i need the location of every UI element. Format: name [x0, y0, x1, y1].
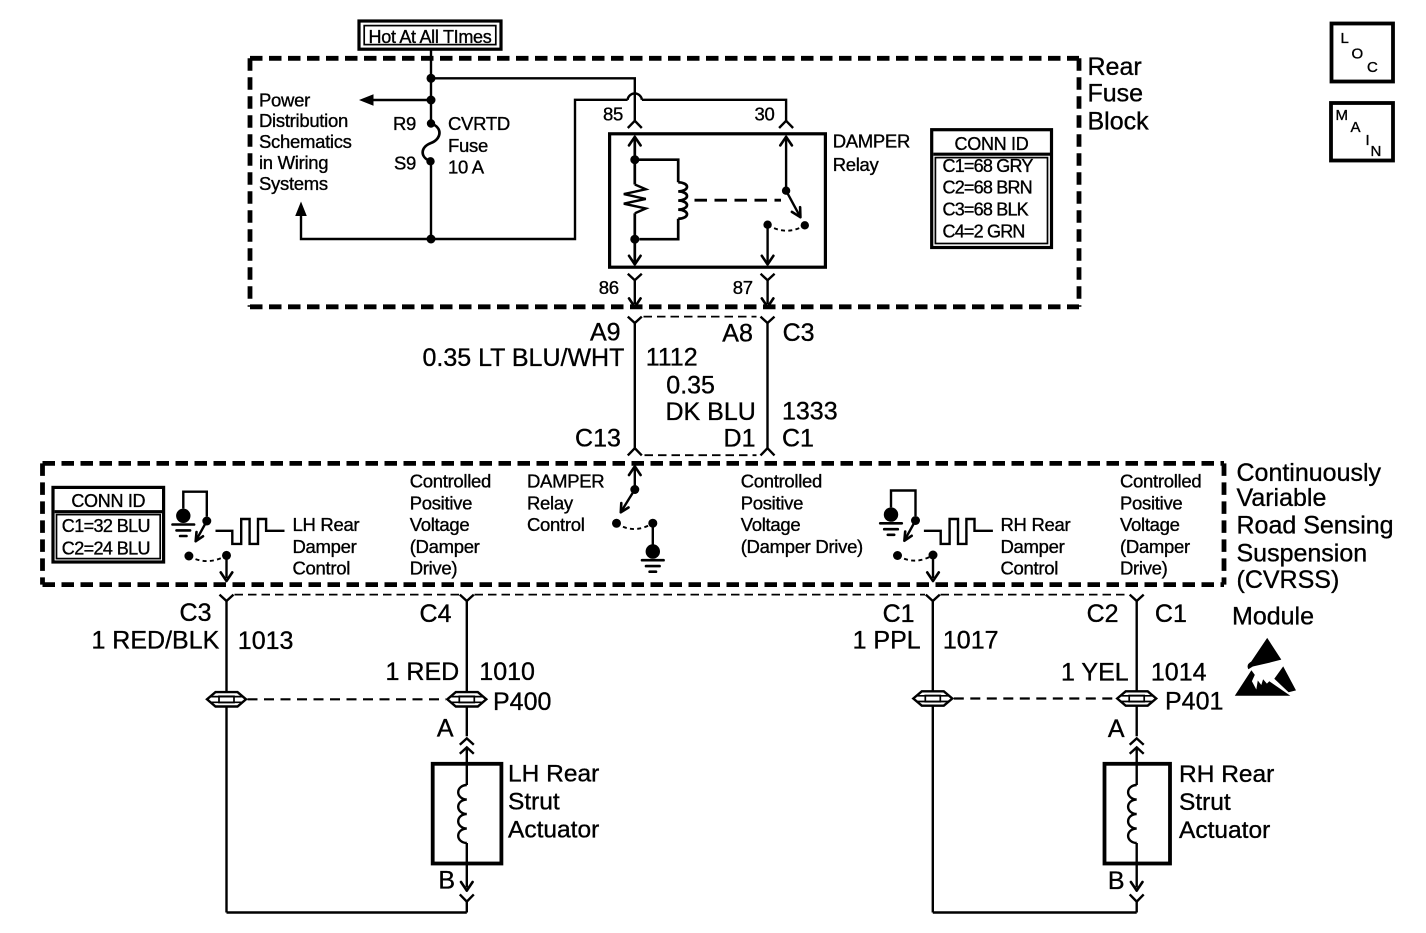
- svg-text:C3=68 BLK: C3=68 BLK: [943, 199, 1029, 219]
- svg-text:Positive: Positive: [410, 492, 472, 513]
- svg-text:C2=24 BLU: C2=24 BLU: [62, 538, 150, 558]
- node contact: [202, 517, 211, 526]
- svg-text:CONN ID: CONN ID: [71, 491, 145, 511]
- svg-text:Actuator: Actuator: [508, 817, 599, 844]
- ESD sensitive device symbol: [1248, 638, 1282, 669]
- svg-text:Relay: Relay: [833, 154, 880, 175]
- switch arm RH: [905, 521, 916, 540]
- wire to ground: [652, 523, 654, 544]
- svg-text:Strut: Strut: [1179, 789, 1231, 816]
- svg-text:Power: Power: [259, 89, 310, 110]
- wire ground to switch contact RH: [891, 491, 916, 517]
- svg-text:(CVRSS): (CVRSS): [1237, 566, 1340, 594]
- node pivot: [612, 519, 621, 528]
- svg-text:Controlled: Controlled: [741, 471, 822, 492]
- svg-text:N: N: [1371, 143, 1382, 160]
- wire fuse output down: [430, 161, 432, 239]
- svg-text:Voltage: Voltage: [410, 514, 470, 535]
- svg-text:86: 86: [599, 277, 619, 298]
- svg-text:P401: P401: [1165, 688, 1223, 716]
- svg-text:1010: 1010: [479, 658, 535, 686]
- svg-text:B: B: [438, 867, 455, 895]
- dashed tie between connectors RH: [954, 697, 1116, 699]
- svg-text:0.35: 0.35: [666, 372, 715, 400]
- wire 1017 (C1 down): [932, 601, 934, 692]
- arrow left solid: [359, 94, 374, 106]
- wire relay 87 to module (x=767.5): [761, 317, 775, 323]
- svg-text:Positive: Positive: [741, 492, 803, 513]
- node coil bottom junction: [630, 235, 639, 244]
- node ground contact: [648, 519, 657, 528]
- svg-text:R9: R9: [393, 113, 416, 134]
- svg-text:A: A: [1351, 119, 1361, 136]
- fuse CVRTD 10A (S-curve element): [427, 119, 435, 127]
- svg-text:C1=32 BLU: C1=32 BLU: [62, 516, 150, 536]
- svg-text:30: 30: [755, 104, 775, 125]
- svg-text:Strut: Strut: [508, 789, 560, 816]
- node output contact: [222, 551, 231, 560]
- svg-text:85: 85: [603, 104, 623, 125]
- svg-text:1 RED/BLK: 1 RED/BLK: [91, 627, 219, 655]
- svg-text:O: O: [1352, 46, 1364, 63]
- wire 1014 (C2 down): [1135, 601, 1137, 692]
- svg-text:Distribution: Distribution: [259, 110, 348, 131]
- svg-text:C1=68 GRY: C1=68 GRY: [943, 156, 1034, 176]
- svg-text:Schematics: Schematics: [259, 131, 352, 152]
- svg-text:Damper: Damper: [293, 536, 357, 557]
- svg-text:Module: Module: [1232, 602, 1314, 630]
- node pin 87 contact: [763, 221, 771, 229]
- actuator solenoid coil RH: [1135, 764, 1137, 785]
- dashed throw arc: [768, 225, 805, 231]
- wire ground to switch contact: [183, 492, 207, 517]
- wire battery feed from Hot At All Times: [430, 49, 432, 123]
- svg-text:Actuator: Actuator: [1179, 817, 1270, 844]
- ground (LH damper driver): [176, 509, 190, 523]
- svg-text:(Damper: (Damper: [410, 536, 480, 557]
- RH Rear Strut Actuator box: [1105, 764, 1171, 864]
- wire bottom return LH: [227, 911, 467, 913]
- Rear Fuse Block boundary (dashed): [250, 56, 1079, 61]
- svg-text:C2: C2: [1087, 600, 1119, 628]
- PWM waveform symbol LH: [216, 519, 285, 544]
- pin 87 connector: [761, 274, 775, 280]
- wire B out (RH): [1135, 864, 1137, 888]
- node switch pivot: [782, 187, 790, 195]
- resistor (relay internal): [633, 160, 636, 185]
- svg-text:C3: C3: [180, 599, 212, 627]
- PWM waveform symbol RH: [924, 519, 993, 544]
- svg-text:1333: 1333: [782, 398, 838, 426]
- svg-text:RH Rear: RH Rear: [1001, 514, 1071, 535]
- ground (RH damper driver): [884, 507, 898, 521]
- pin C2 connector: [1130, 595, 1144, 601]
- wire pin 87 down with arrow: [766, 225, 768, 264]
- relay control drive arrow: [629, 466, 641, 475]
- svg-text:Fuse: Fuse: [1088, 80, 1144, 108]
- svg-text:Continuously: Continuously: [1237, 459, 1382, 487]
- wire right branch to relay pin 30: [431, 100, 628, 239]
- switch arm (relay control): [621, 490, 635, 512]
- svg-text:(Damper: (Damper: [1120, 536, 1190, 557]
- svg-text:D1: D1: [724, 424, 756, 452]
- wire B out (LH): [466, 864, 468, 888]
- svg-text:C4: C4: [420, 600, 452, 628]
- svg-text:C1: C1: [782, 424, 814, 452]
- svg-text:M: M: [1336, 107, 1349, 124]
- svg-text:C13: C13: [575, 424, 621, 452]
- svg-text:Systems: Systems: [259, 173, 328, 194]
- connector pins A (RH): [1130, 738, 1144, 744]
- wire to pin C1 with arrow: [932, 555, 934, 578]
- relay switch arm: [786, 191, 800, 218]
- connector face dashed line: [235, 594, 460, 596]
- node junction at y=100: [427, 96, 436, 105]
- inline connector (RH left): [913, 691, 952, 705]
- svg-text:1 PPL: 1 PPL: [853, 627, 921, 655]
- pin 30 connector: [779, 121, 793, 128]
- svg-text:1017: 1017: [943, 627, 999, 655]
- svg-text:DAMPER: DAMPER: [527, 471, 604, 492]
- svg-text:in Wiring: in Wiring: [259, 152, 328, 173]
- svg-text:I: I: [1366, 132, 1370, 149]
- wire to left arrow (power distribution reference): [371, 99, 431, 101]
- node coil top junction: [630, 155, 639, 164]
- svg-text:Road Sensing: Road Sensing: [1237, 512, 1394, 540]
- LOC reference box: [1332, 24, 1394, 82]
- relay coil-side pin 85 entry arrow: [629, 137, 641, 146]
- svg-text:10 A: 10 A: [448, 157, 485, 178]
- svg-text:Relay: Relay: [527, 492, 574, 513]
- svg-text:CONN ID: CONN ID: [955, 134, 1029, 154]
- wire relay 86 to module (x=634.8): [628, 317, 642, 323]
- wire 1010 (C4 down): [466, 601, 468, 692]
- svg-text:Suspension: Suspension: [1237, 539, 1368, 567]
- svg-text:Control: Control: [293, 558, 351, 579]
- svg-text:Positive: Positive: [1120, 492, 1182, 513]
- node pivot: [184, 552, 193, 561]
- svg-text:1 RED: 1 RED: [386, 658, 460, 686]
- LH Rear Strut Actuator box: [433, 764, 502, 864]
- pin C1 connector: [926, 595, 940, 601]
- svg-text:87: 87: [733, 277, 753, 298]
- ground (relay control): [646, 544, 660, 558]
- inline connector P401: [1117, 691, 1156, 705]
- wire top branch to relay pin 85: [431, 78, 635, 120]
- wire left branch with up arrow: [301, 208, 431, 239]
- svg-text:A8: A8: [722, 319, 753, 347]
- svg-text:Hot At All TImes: Hot At All TImes: [369, 27, 492, 47]
- dashed throw arc RH: [898, 555, 934, 561]
- pin 85 connector: [628, 121, 642, 128]
- wire bottom return RH: [933, 911, 1137, 913]
- pin 86 connector: [628, 274, 642, 280]
- relay K DAMPER Relay box: [610, 134, 826, 267]
- svg-text:Variable: Variable: [1237, 484, 1327, 512]
- svg-text:Controlled: Controlled: [1120, 471, 1201, 492]
- svg-text:C: C: [1367, 59, 1378, 76]
- svg-text:CVRTD: CVRTD: [448, 113, 510, 134]
- svg-text:Damper: Damper: [1001, 536, 1065, 557]
- svg-text:Drive): Drive): [1120, 558, 1168, 579]
- pin C4 connector: [460, 595, 474, 601]
- svg-text:DK BLU: DK BLU: [666, 398, 756, 426]
- svg-text:(Damper Drive): (Damper Drive): [741, 536, 863, 557]
- CVRSS module boundary (dashed): [43, 461, 1225, 466]
- svg-text:S9: S9: [394, 153, 416, 174]
- CONN ID table (CVRSS module): [53, 487, 164, 562]
- relay pin 30 internal wire with arrow: [780, 137, 792, 146]
- svg-text:Drive): Drive): [410, 558, 458, 579]
- svg-text:LH Rear: LH Rear: [293, 514, 360, 535]
- dashed throw arc: [189, 555, 227, 561]
- svg-text:Voltage: Voltage: [1120, 514, 1180, 535]
- inline connector (LH left): [207, 692, 246, 706]
- node contact: [630, 485, 639, 494]
- svg-text:C2=68 BRN: C2=68 BRN: [943, 177, 1032, 197]
- svg-text:Block: Block: [1088, 108, 1150, 136]
- svg-text:C1: C1: [883, 600, 915, 628]
- svg-text:L: L: [1341, 30, 1349, 47]
- label box "Hot At All TImes": [359, 21, 501, 49]
- dashed actuation link: [695, 199, 782, 202]
- dashed throw arc: [617, 523, 653, 529]
- inline connector P400: [447, 692, 486, 706]
- svg-text:A: A: [437, 715, 454, 743]
- node output contact RH: [929, 551, 938, 560]
- node junction at y=78: [427, 74, 436, 83]
- wire 1013 (C3 down): [225, 601, 227, 692]
- svg-text:C1: C1: [1155, 600, 1187, 628]
- svg-text:RH Rear: RH Rear: [1179, 761, 1274, 788]
- node pivot RH: [893, 551, 902, 560]
- svg-text:C4=2 GRN: C4=2 GRN: [943, 222, 1025, 242]
- connector pins A (LH): [460, 738, 474, 744]
- actuator solenoid coil LH: [466, 764, 468, 785]
- svg-text:1013: 1013: [238, 627, 294, 655]
- svg-text:0.35 LT BLU/WHT: 0.35 LT BLU/WHT: [422, 344, 624, 372]
- node switch NO contact: [801, 221, 809, 229]
- MAIN reference box: [1331, 103, 1393, 161]
- relay pin 86 exit arrow: [633, 239, 636, 264]
- connector pass-through dashed outline: [644, 316, 757, 318]
- svg-text:B: B: [1108, 867, 1125, 895]
- svg-text:DAMPER: DAMPER: [833, 131, 910, 152]
- svg-text:Control: Control: [1001, 558, 1059, 579]
- dashed tie between connectors LH: [248, 698, 447, 700]
- svg-text:C3: C3: [783, 319, 815, 347]
- svg-text:1 YEL: 1 YEL: [1061, 659, 1129, 687]
- svg-text:A9: A9: [590, 319, 621, 347]
- pin C3 connector: [220, 595, 234, 601]
- wire to pin C3 with arrow: [225, 555, 227, 578]
- CONN ID table (Rear Fuse Block): [932, 130, 1052, 248]
- switch arm LH: [196, 521, 207, 540]
- svg-text:1014: 1014: [1151, 659, 1207, 687]
- svg-text:Rear: Rear: [1088, 53, 1142, 81]
- node contact RH: [911, 516, 920, 525]
- relay coil winding: [635, 160, 678, 183]
- svg-text:1112: 1112: [646, 344, 698, 372]
- node junction at y=239: [427, 235, 436, 244]
- svg-text:Voltage: Voltage: [741, 514, 801, 535]
- svg-text:Controlled: Controlled: [410, 471, 491, 492]
- wire hop over vertical: [628, 93, 642, 99]
- svg-text:P400: P400: [493, 688, 551, 716]
- svg-text:A: A: [1108, 715, 1125, 743]
- svg-text:Control: Control: [527, 514, 585, 535]
- svg-text:Fuse: Fuse: [448, 135, 488, 156]
- svg-text:LH Rear: LH Rear: [508, 761, 599, 788]
